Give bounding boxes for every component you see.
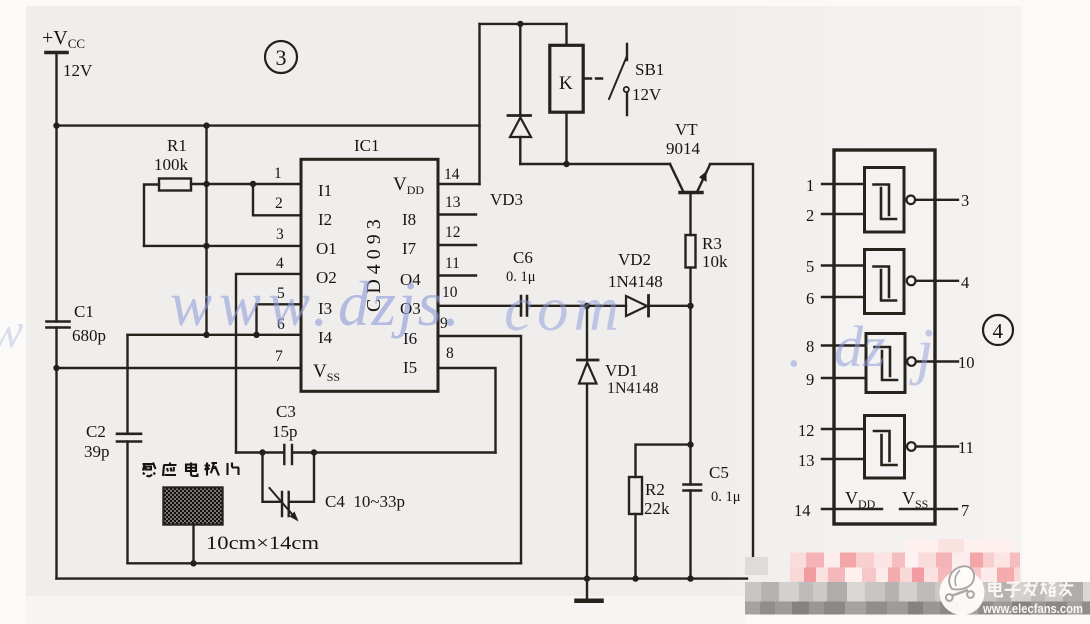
sensor electrode plate [164, 488, 223, 525]
wire electrode stem [192, 525, 194, 564]
label SB1 12V [632, 60, 664, 104]
node pin6-vertical [203, 332, 209, 338]
resistor R3 [686, 235, 696, 268]
node pin6-pin5 [253, 332, 259, 338]
wire top rail [480, 23, 567, 25]
label R3 10k [702, 234, 728, 271]
wire pin 1 line [191, 183, 301, 185]
svg-text:15p: 15p [272, 422, 298, 441]
label VT 9014 [666, 120, 701, 158]
svg-text:7: 7 [275, 348, 283, 365]
capacitor C6 [521, 296, 527, 316]
IC2 Vdd Vss labels [845, 488, 928, 511]
svg-text:11: 11 [958, 438, 974, 457]
svg-text:7: 7 [961, 501, 969, 520]
diode VD2 [626, 296, 649, 317]
node O3-VD1 [584, 303, 590, 309]
wire pin8 input [822, 344, 866, 346]
gate U2D box [865, 416, 905, 479]
node pin7-C1 [53, 365, 59, 371]
wire C4 branch [263, 453, 315, 502]
wire pin1 input [822, 183, 865, 185]
label 10cm x 14cm [206, 534, 320, 554]
svg-text:I7: I7 [402, 239, 417, 258]
switch SB1 linkage dashes [585, 77, 607, 79]
node pin3-vertical [203, 243, 209, 249]
diode VD3 [508, 24, 531, 164]
svg-text:www.elecfans.com: www.elecfans.com [982, 601, 1083, 616]
gate U2A bubble [907, 196, 916, 205]
svg-text:w: w [0, 302, 23, 358]
wire outer bottom frame [57, 577, 748, 579]
svg-text:3: 3 [961, 191, 969, 210]
node pin1-pin2 branch [250, 181, 256, 187]
wire pin 4 line down to C3 [236, 274, 301, 453]
wire K top [565, 24, 567, 45]
label C1 680p [72, 302, 106, 345]
svg-text:13: 13 [445, 194, 461, 211]
wire pin 13 stub [438, 213, 476, 215]
label VD3 [490, 190, 523, 209]
wire pin 12 stub [438, 244, 476, 246]
gate U2D bubble [907, 442, 916, 451]
svg-text:C5: C5 [709, 463, 729, 482]
label +Vcc 12V [42, 27, 93, 80]
node C5-bottom [687, 575, 693, 581]
svg-text:22k: 22k [644, 499, 670, 518]
label VD1 1N4148 [605, 361, 659, 397]
svg-text:R2: R2 [645, 480, 665, 499]
node R2 branch [687, 441, 693, 447]
wire pin6 input [822, 296, 865, 298]
label C6 0.1u [506, 248, 536, 285]
wire pin10 output [916, 360, 958, 362]
wire inner bottom line [128, 562, 522, 564]
IC1 left pin numbers [274, 165, 285, 365]
svg-text:8: 8 [806, 337, 814, 356]
node C4 left [259, 449, 265, 455]
node pin1-R1 [203, 181, 209, 187]
wire pin 5 branch [257, 304, 302, 335]
svg-text:SB1: SB1 [635, 60, 664, 79]
transistor VT 9014 [670, 164, 710, 235]
gate U2C box [866, 334, 905, 393]
svg-text:100k: 100k [154, 155, 189, 174]
node rail-R1 [203, 122, 209, 128]
svg-text:1N4148: 1N4148 [607, 380, 659, 397]
svg-text:O1: O1 [316, 239, 337, 258]
svg-text:C3: C3 [276, 402, 296, 421]
svg-text:R1: R1 [167, 136, 187, 155]
svg-text:VD1: VD1 [605, 361, 638, 380]
label C4 10-33p [325, 492, 405, 511]
node K-collector [563, 161, 569, 167]
svg-text:14: 14 [794, 501, 811, 520]
svg-text:10: 10 [958, 353, 975, 372]
wire pin3 output [915, 199, 958, 201]
wire pin 8 line down [438, 368, 496, 453]
wire R1 left to pin3 [144, 185, 159, 246]
wire Vcc stem down left rail [55, 53, 57, 579]
svg-text:2: 2 [275, 195, 283, 212]
wire mid vertical with C5 gap [689, 306, 691, 579]
svg-text:VT: VT [675, 120, 698, 139]
label C2 39p [84, 422, 110, 461]
svg-text:C1: C1 [74, 302, 94, 321]
ground [577, 579, 602, 601]
svg-text:680p: 680p [72, 326, 106, 345]
wire R2 branch [636, 445, 691, 579]
wire pin 2 branch [253, 184, 301, 215]
svg-text:dzjs.: dzjs. [338, 269, 462, 339]
svg-text:12V: 12V [63, 61, 93, 80]
svg-text:12: 12 [445, 224, 461, 241]
node electrode-bottom [190, 560, 196, 566]
svg-text:www.: www. [170, 269, 335, 339]
wire vdd riser x=479.5 [478, 24, 480, 184]
capacitor C1 [47, 322, 70, 328]
wire emitter to right rail [710, 164, 753, 559]
svg-text:6: 6 [806, 289, 814, 308]
wire pin13 input [822, 458, 865, 460]
wire pin2 input [822, 213, 865, 215]
svg-text:IC1: IC1 [354, 136, 380, 155]
svg-text:VD2: VD2 [618, 250, 651, 269]
svg-text:I8: I8 [402, 210, 416, 229]
svg-text:K: K [559, 73, 573, 94]
svg-text:1: 1 [806, 176, 814, 195]
node C4 right [311, 449, 317, 455]
svg-text:I5: I5 [403, 358, 417, 377]
svg-text:10k: 10k [702, 252, 728, 271]
label K [559, 73, 573, 94]
wire pin7 Vss line [900, 508, 957, 510]
wire pin 9 line and vertical [438, 336, 521, 563]
wire collector line y=164 [520, 163, 670, 165]
svg-text:3: 3 [276, 45, 287, 70]
svg-text:com: com [504, 274, 624, 344]
wire K bottom [565, 112, 567, 164]
wire C3 line [236, 451, 496, 453]
svg-text:9: 9 [806, 370, 814, 389]
label R2 22k [644, 480, 670, 518]
svg-text:8: 8 [446, 345, 454, 362]
relay K [550, 45, 583, 112]
svg-text:13: 13 [798, 451, 815, 470]
gate U2A box [865, 168, 905, 233]
node VD2-R3 [687, 303, 693, 309]
wire vertical x=206.5 [205, 126, 207, 335]
IC2 left pin numbers [794, 176, 815, 520]
node R2-bottom [632, 575, 638, 581]
svg-text:0. 1μ: 0. 1μ [711, 489, 741, 505]
gate U2C bubble [907, 357, 916, 366]
svg-text:12: 12 [798, 421, 815, 440]
svg-text:39p: 39p [84, 442, 110, 461]
IC2 pinout outer box [834, 150, 935, 524]
label VD2 1N4148 [608, 250, 663, 291]
label R1 100k [154, 136, 189, 174]
wire pin5 input [822, 264, 865, 266]
node top rail VD3 [517, 21, 523, 27]
wire pin 14 stub [438, 183, 480, 185]
svg-text:2: 2 [806, 206, 814, 225]
label CD4093 [363, 214, 385, 312]
svg-text:5: 5 [806, 257, 814, 276]
svg-text:3: 3 [276, 226, 284, 243]
svg-text:C6: C6 [513, 248, 533, 267]
capacitor C5 [684, 485, 702, 491]
svg-text:C4 10~33p: C4 10~33p [325, 492, 405, 511]
gate U2B bubble [907, 276, 916, 285]
wire pin11 output [916, 445, 958, 447]
resistor R1 [159, 179, 191, 191]
svg-text:R3: R3 [702, 234, 722, 253]
IC1 right pin numbers [440, 166, 461, 362]
wire R3 bottom [689, 268, 691, 306]
IC1 body CD4093 [301, 159, 438, 391]
IC2 right pin numbers [958, 191, 975, 520]
IC1 pin names left [313, 181, 340, 384]
svg-text:I2: I2 [318, 210, 332, 229]
capacitor C3 [284, 445, 292, 464]
label IC1 [354, 136, 380, 155]
svg-text:C2: C2 [86, 422, 106, 441]
svg-text:1: 1 [274, 165, 282, 182]
svg-text:dz: dz [834, 314, 886, 379]
svg-text:.: . [788, 314, 803, 379]
power +Vcc symbol [46, 51, 67, 55]
wire pin 3 line [144, 245, 301, 247]
svg-text:I1: I1 [318, 181, 332, 200]
wire pin 7 Vss line [57, 367, 302, 369]
capacitor C4 variable [270, 488, 299, 522]
label sensor electrode (Chinese) [143, 463, 240, 477]
figure number 3 [265, 41, 297, 73]
figure number 4 [983, 315, 1013, 345]
label C5 0.1u [709, 463, 741, 505]
svg-text:4: 4 [961, 273, 969, 292]
wire pin 6 line [128, 334, 302, 336]
resistor R2 [629, 477, 642, 514]
IC1 pin names right [393, 174, 424, 377]
label C3 15p [272, 402, 298, 441]
wire pin4 output [916, 280, 958, 282]
node VD1-bottom [584, 575, 590, 581]
wire left electrode branch with C2 gap [126, 335, 128, 564]
svg-text:14: 14 [444, 166, 460, 183]
svg-text:10cm×14cm: 10cm×14cm [206, 534, 320, 554]
wire pin9 input [822, 377, 866, 379]
wire O3 line with C6 gap [438, 305, 691, 307]
svg-text:4: 4 [993, 319, 1004, 343]
node rail-left [53, 122, 59, 128]
gate U2B box [865, 250, 905, 314]
wire pin12 input [822, 428, 865, 430]
wire main top rail y=125.6 [57, 124, 480, 126]
wire pin 11 stub [438, 274, 476, 276]
diode VD1 [578, 306, 599, 579]
svg-text:VD3: VD3 [490, 190, 523, 209]
svg-text:9014: 9014 [666, 139, 701, 158]
switch SB1 [609, 44, 629, 115]
wire pin14 Vdd line [822, 508, 882, 510]
capacitor C2 [117, 434, 141, 442]
svg-text:12V: 12V [632, 85, 662, 104]
